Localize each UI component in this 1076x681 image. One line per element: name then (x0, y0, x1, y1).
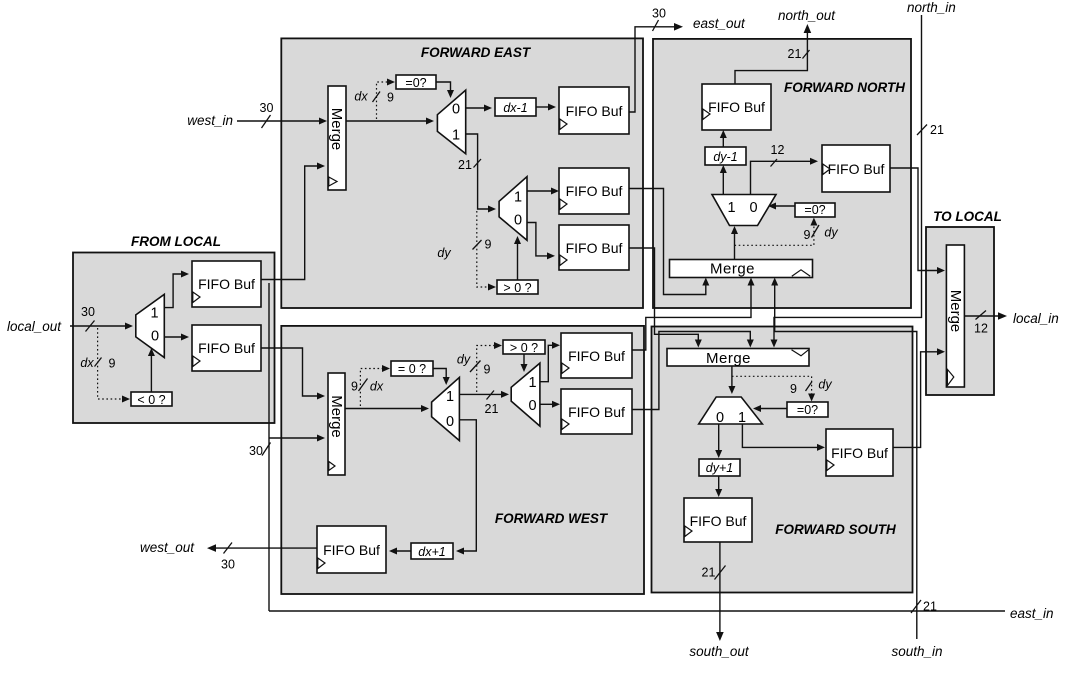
wire FIFO N1 output to north_out (735, 29, 807, 85)
wire FIFO W1 output to Merge MN input 2 (632, 282, 751, 350)
slash on local_in (976, 311, 987, 320)
wire mux MX7 output 1 to FIFO S2 (742, 424, 820, 447)
svg-text:9: 9 (351, 380, 358, 394)
svg-text:FIFO Buf: FIFO Buf (198, 340, 255, 356)
svg-text:1: 1 (452, 128, 460, 144)
mux MX2 (FORWARD EAST) (499, 177, 527, 241)
svg-text:FIFO Buf: FIFO Buf (831, 445, 888, 461)
svg-text:21: 21 (702, 566, 716, 580)
svg-text:dx-1: dx-1 (503, 101, 527, 115)
region FORWARD EAST (281, 38, 643, 308)
svg-text:9: 9 (804, 228, 811, 242)
wire mux MX5 output 0 to FIFO L2 (164, 336, 184, 338)
wire mux MX1 output 1 to mux MX2 (466, 134, 491, 209)
svg-text:FIFO Buf: FIFO Buf (198, 276, 255, 292)
wire comparator =0? to mux MX1 select (436, 82, 451, 93)
svg-text:0: 0 (514, 213, 522, 229)
svg-text:north_in: north_in (907, 0, 956, 15)
region TO LOCAL (926, 227, 994, 395)
slash on east dy tap (473, 240, 482, 250)
wire comparator =0? to mux MX3 select (433, 369, 446, 381)
comparator >0? (FORWARD WEST) (503, 340, 545, 354)
svg-text:dy+1: dy+1 (706, 461, 733, 475)
svg-text:1: 1 (528, 375, 536, 391)
mux MX3 (FORWARD WEST) (432, 377, 460, 440)
wire comparator =0? to mux MX7 select (758, 408, 787, 410)
svg-text:= 0 ?: = 0 ? (398, 362, 426, 376)
svg-text:0: 0 (452, 102, 460, 118)
dotted dy tap to >0? in FORWARD EAST (477, 211, 489, 287)
wire Merge MW output to mux MX3 (345, 408, 424, 410)
svg-text:FIFO Buf: FIFO Buf (566, 103, 623, 119)
dotted dx tap to =0? in FORWARD EAST (377, 82, 390, 119)
comparator =0? (FORWARD EAST) (396, 75, 436, 89)
wire mux MX7 output 0 to dy+1 (718, 424, 720, 453)
svg-text:0: 0 (716, 410, 724, 426)
svg-text:30: 30 (652, 7, 666, 21)
wire comparator <0? to mux MX5 select (150, 353, 152, 392)
slash on west dy tap (470, 361, 481, 373)
svg-text:dy: dy (824, 226, 838, 240)
FIFO buffer S2 (826, 429, 893, 476)
wire Merge MS output to mux MX7 (731, 366, 733, 389)
Merge ML (TO LOCAL) (946, 245, 964, 387)
svg-text:FIFO Buf: FIFO Buf (828, 161, 885, 177)
comparator =0? (FORWARD WEST) (391, 361, 433, 376)
svg-text:=0?: =0? (797, 403, 818, 417)
wire comparator >0? to mux MX4 select (523, 354, 525, 367)
mux MX1 (FORWARD EAST) (437, 90, 465, 154)
svg-text:21: 21 (485, 402, 499, 416)
svg-text:30: 30 (260, 101, 274, 115)
wire FIFO S2 output to Merge ML lower input (893, 352, 940, 448)
svg-text:0: 0 (446, 414, 454, 430)
svg-text:FIFO Buf: FIFO Buf (566, 183, 623, 199)
wire FIFO E3 output to Merge MS input 1 (629, 248, 698, 343)
wire FIFO W3 output to west_out (212, 547, 317, 549)
svg-text:Merge: Merge (947, 290, 964, 333)
svg-text:=0?: =0? (804, 203, 825, 217)
wire local_out to mux MX5 (70, 325, 128, 327)
svg-text:> 0 ?: > 0 ? (510, 341, 538, 355)
slash on east_out (653, 20, 659, 31)
slash on local dx tap (95, 358, 102, 367)
wire local FIFO L1 output to Merge ME lower input (261, 166, 321, 280)
wire east_in riser with branch to Merge MW lower input (268, 283, 270, 611)
svg-text:0: 0 (528, 398, 536, 414)
svg-text:30: 30 (221, 558, 235, 572)
svg-text:FIFO Buf: FIFO Buf (690, 513, 747, 529)
svg-text:=0?: =0? (405, 76, 426, 90)
svg-text:dx: dx (80, 356, 94, 370)
svg-text:1: 1 (514, 190, 522, 206)
slash on MX6 output 0 (771, 159, 778, 167)
svg-text:south_in: south_in (891, 644, 942, 659)
svg-text:9: 9 (387, 91, 394, 105)
svg-text:1: 1 (738, 410, 746, 426)
Merge MS (FORWARD SOUTH) (667, 349, 809, 367)
slash on east_in (911, 600, 921, 613)
svg-text:9: 9 (790, 382, 797, 396)
svg-text:Merge: Merge (706, 350, 751, 367)
wire mux MX3 output 1 to mux MX4 (459, 393, 504, 395)
svg-text:Merge: Merge (710, 261, 755, 278)
wire mux MX6 output 1 to dy-1 (722, 170, 724, 195)
svg-text:FORWARD WEST: FORWARD WEST (495, 511, 609, 526)
wire south_in to Merge MN input 3 (775, 282, 917, 639)
Merge MN (FORWARD NORTH) (670, 260, 813, 278)
svg-text:FIFO Buf: FIFO Buf (566, 240, 623, 256)
wire dy+1 to FIFO S1 (718, 476, 720, 492)
svg-text:west_in: west_in (187, 113, 233, 128)
wire outer bottom east_in (269, 610, 1005, 612)
svg-text:dx: dx (354, 90, 368, 104)
wire mux MX5 output 1 to FIFO L1 (164, 274, 184, 308)
svg-text:north_out: north_out (778, 8, 836, 23)
svg-text:0: 0 (749, 200, 757, 216)
svg-text:21: 21 (930, 123, 944, 137)
svg-text:> 0 ?: > 0 ? (503, 281, 531, 295)
wire Merge ML output to local_in (964, 315, 1002, 317)
wire mux MX6 output 0 to FIFO N2 (751, 161, 814, 194)
svg-text:FIFO Buf: FIFO Buf (568, 348, 625, 364)
wire comparator >0? to mux MX2 select (517, 241, 519, 280)
FIFO buffer W3 (317, 526, 386, 573)
svg-text:30: 30 (81, 305, 95, 319)
svg-text:9: 9 (484, 363, 491, 377)
FIFO buffer N2 (822, 145, 890, 192)
svg-text:12: 12 (974, 322, 988, 336)
svg-text:1: 1 (446, 389, 454, 405)
region FORWARD WEST (281, 326, 644, 594)
wire FIFO W2 output to Merge MS input 2 (632, 332, 750, 410)
svg-text:21: 21 (458, 158, 472, 172)
svg-text:FORWARD SOUTH: FORWARD SOUTH (775, 522, 896, 537)
svg-text:21: 21 (788, 47, 802, 61)
comparator <0? (FROM LOCAL) (131, 392, 172, 406)
svg-text:< 0 ?: < 0 ? (137, 393, 165, 407)
wire FIFO N2 output to Merge ML upper input (890, 168, 940, 271)
wire mux MX4 output 1 to FIFO W1 (540, 345, 555, 381)
svg-text:TO LOCAL: TO LOCAL (933, 209, 1002, 224)
svg-text:FROM LOCAL: FROM LOCAL (131, 234, 221, 249)
slash on north dy tap (812, 225, 820, 238)
mux MX6 (FORWARD NORTH) (712, 195, 776, 226)
FIFO buffer E3 (559, 225, 629, 270)
Merge ME (FORWARD EAST) (328, 86, 346, 190)
svg-text:east_out: east_out (693, 16, 746, 31)
svg-text:dy: dy (457, 353, 471, 367)
slash on west_in (262, 115, 271, 128)
slash on south dy tap (806, 382, 813, 392)
svg-text:west_out: west_out (140, 540, 195, 555)
svg-text:dy-1: dy-1 (713, 150, 737, 164)
FIFO buffer E1 (559, 87, 629, 134)
svg-text:dx: dx (370, 380, 384, 394)
decrementer dy-1 (705, 147, 746, 165)
svg-text:Merge: Merge (328, 395, 345, 438)
svg-text:30: 30 (249, 444, 263, 458)
wire dy-1 to FIFO N1 (722, 135, 724, 147)
svg-text:FORWARD NORTH: FORWARD NORTH (784, 80, 905, 95)
FIFO buffer W1 (561, 333, 632, 378)
slash on south_out (715, 566, 726, 580)
svg-text:12: 12 (771, 143, 785, 157)
decrementer dx-1 (495, 98, 536, 116)
svg-text:dy: dy (437, 246, 451, 260)
svg-text:FORWARD EAST: FORWARD EAST (421, 45, 532, 60)
dotted dy tap to =0? in FORWARD NORTH (735, 224, 814, 245)
comparator =0? (FORWARD SOUTH) (787, 402, 828, 417)
slash on west_out (224, 543, 233, 554)
FIFO buffer L2 (192, 325, 261, 371)
svg-text:9: 9 (485, 238, 492, 252)
svg-text:local_out: local_out (7, 319, 62, 334)
dotted dx tap to <0? in FROM LOCAL (98, 328, 123, 399)
wire north_in to Merge MS input 3 (774, 15, 922, 343)
comparator =0? (FORWARD NORTH) (795, 203, 835, 217)
wire comparator =0? to mux MX6 select (772, 205, 795, 207)
svg-text:east_in: east_in (1010, 606, 1054, 621)
mux MX4 (FORWARD WEST) (511, 363, 540, 426)
incrementer dy+1 (699, 459, 740, 476)
svg-text:21: 21 (923, 600, 937, 614)
svg-text:9: 9 (109, 357, 116, 371)
FIFO buffer S1 (684, 498, 752, 542)
wire dx-1 to FIFO E1 (536, 106, 551, 108)
svg-text:Merge: Merge (328, 108, 345, 151)
FIFO buffer L1 (192, 261, 261, 307)
wire FIFO S1 output to south_out (719, 542, 721, 635)
wire west_in to Merge ME (237, 120, 323, 122)
mux MX5 (FROM LOCAL) (136, 294, 165, 357)
FIFO buffer E2 (559, 168, 629, 214)
wire FIFO E1 output to east_out (629, 27, 678, 112)
slash on Merge MW lower input riser (262, 443, 271, 456)
slash on east dx tap (373, 92, 381, 103)
wire FIFO E2 output to Merge MN input 1 (629, 189, 706, 295)
slash on MX1 output 1 (474, 159, 482, 168)
svg-text:1: 1 (150, 306, 158, 322)
svg-text:1: 1 (727, 200, 735, 216)
svg-text:dy: dy (818, 378, 832, 392)
dotted dy tap to =0? in FORWARD SOUTH (732, 376, 812, 395)
wire local FIFO L2 output to Merge MW upper input (261, 348, 320, 396)
slash on north_out (803, 50, 810, 59)
wire mux MX2 output 1 to FIFO E2 (527, 190, 554, 192)
region FROM LOCAL (73, 253, 275, 424)
wire Merge MN output to mux MX6 (734, 231, 736, 259)
wire mux MX1 output 0 to dx-1 (466, 107, 488, 109)
dotted dx tap to =0? in FORWARD WEST (360, 369, 383, 407)
slash on north_in (917, 125, 927, 136)
Merge MW (FORWARD WEST) (328, 373, 345, 475)
svg-text:FIFO Buf: FIFO Buf (568, 404, 625, 420)
svg-text:FIFO Buf: FIFO Buf (708, 99, 765, 115)
slash on local_out (86, 321, 95, 332)
dotted dy tap to >0? in FORWARD WEST (477, 346, 495, 393)
region FORWARD SOUTH (652, 327, 913, 593)
FIFO buffer W2 (561, 389, 632, 434)
incrementer dx+1 (411, 543, 453, 559)
wire dx+1 to FIFO W3 (394, 550, 411, 552)
region FORWARD NORTH (653, 39, 911, 308)
slash on west dx tap (359, 379, 368, 392)
wire mux MX3 output 0 to dx+1 (459, 420, 476, 551)
mux MX7 (FORWARD SOUTH) (699, 397, 763, 424)
FIFO buffer N1 (702, 84, 771, 130)
slash on MX3 output 1 (487, 391, 495, 400)
svg-text:local_in: local_in (1013, 311, 1059, 326)
svg-text:dx+1: dx+1 (418, 545, 445, 559)
wire Merge ME output to mux MX1 (346, 120, 429, 122)
svg-text:0: 0 (151, 329, 159, 345)
svg-text:south_out: south_out (689, 644, 750, 659)
comparator >0? (FORWARD EAST) (497, 280, 538, 294)
wire mux MX2 output 0 to FIFO E3 (527, 223, 550, 256)
wire mux MX4 output 0 to FIFO W2 (540, 403, 555, 405)
svg-text:FIFO Buf: FIFO Buf (323, 542, 380, 558)
